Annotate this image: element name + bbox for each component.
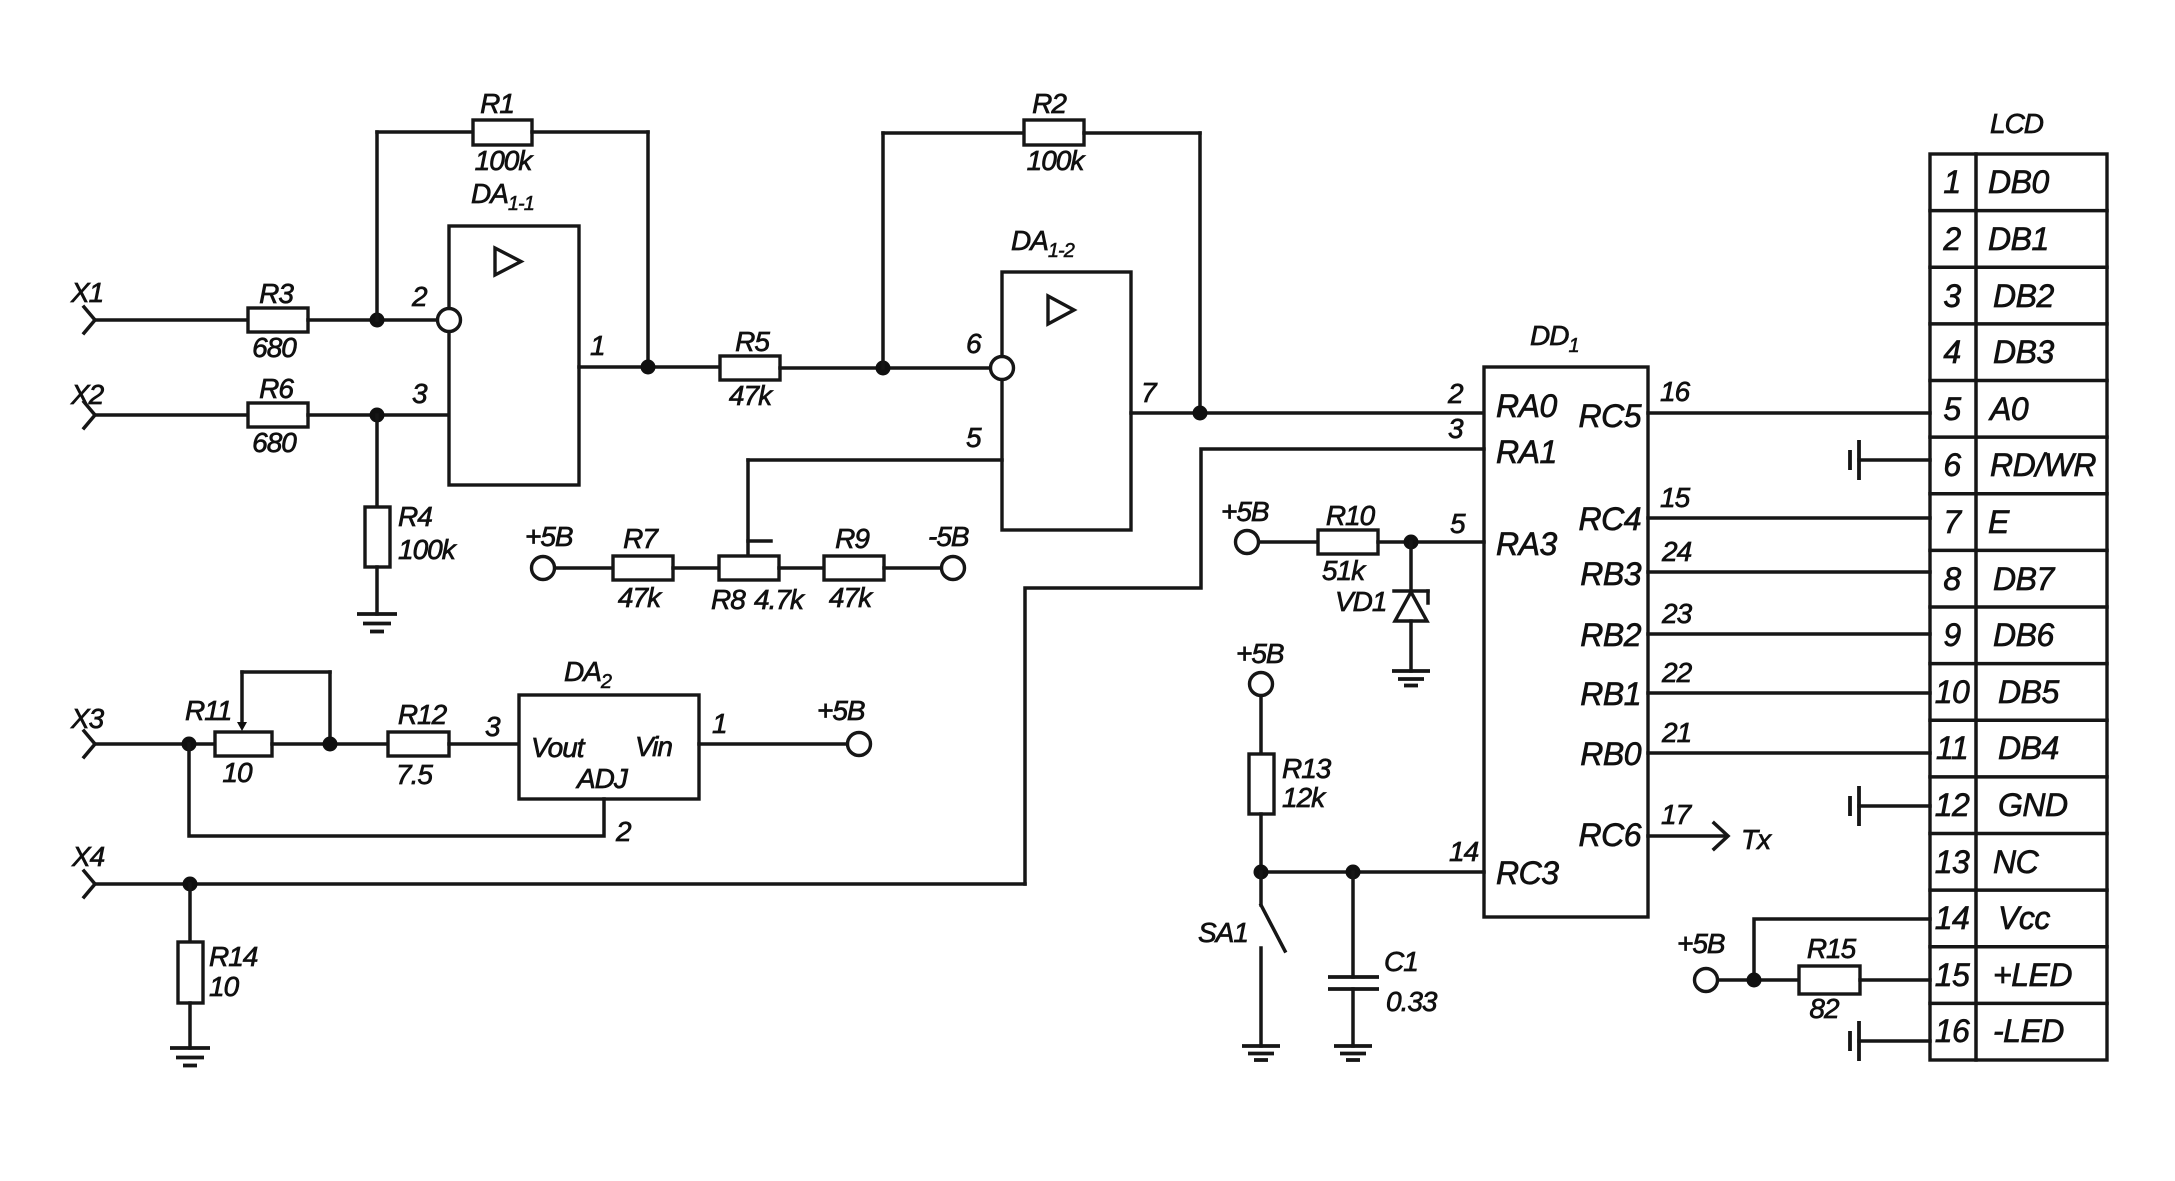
wire +5B to R15 (1718, 978, 1799, 982)
svg-text:RC4: RC4 (1578, 501, 1641, 537)
svg-text:15: 15 (1660, 482, 1691, 513)
pin 2 DB1 (1942, 221, 2048, 257)
svg-text:ADJ: ADJ (575, 763, 629, 794)
resistor R1 100k (473, 88, 534, 176)
wire R9 to -5B (884, 566, 941, 570)
svg-text:DB1: DB1 (1988, 221, 2049, 257)
svg-text:RB3: RB3 (1580, 556, 1641, 592)
regulator U DA2 (485, 656, 727, 847)
svg-text:47k: 47k (729, 380, 774, 411)
wire R2 left vertical (881, 133, 885, 368)
wire RB2 to DB6 (1648, 632, 1930, 636)
svg-text:15: 15 (1935, 957, 1970, 993)
svg-text:RC6: RC6 (1578, 817, 1641, 853)
ground at -LED pin (1850, 1021, 1930, 1061)
svg-text:8: 8 (1943, 561, 1961, 597)
wire R6 to op-amp pin 3 (308, 413, 449, 417)
wire R11 wiper with arrow (237, 672, 247, 731)
wire R11 to R12 (272, 742, 388, 746)
svg-text:DB0: DB0 (1988, 164, 2049, 200)
svg-text:24: 24 (1661, 536, 1692, 567)
pin 8 DB7 (1943, 561, 2055, 597)
wire R12 to DA2 pin 3 (449, 742, 519, 746)
svg-text:16: 16 (1660, 376, 1691, 407)
pin 12 GND (1935, 787, 2068, 823)
svg-text:3: 3 (412, 378, 428, 409)
svg-text:7.5: 7.5 (396, 759, 433, 790)
wire junction to VD1 (1409, 542, 1413, 591)
svg-text:RC5: RC5 (1578, 398, 1641, 434)
svg-text:-5B: -5B (928, 521, 969, 552)
svg-text:21: 21 (1661, 717, 1691, 748)
node X2 (70, 379, 105, 428)
pin 7 E (1943, 504, 2010, 540)
power +5B right of DA2 (817, 695, 871, 756)
wire RC3 row to DD1 (1261, 870, 1484, 874)
node junction X4/R14 (183, 877, 198, 892)
node X3 (70, 703, 105, 757)
wire +5B to R13 (1259, 696, 1263, 754)
wire R1 left vertical (375, 132, 379, 320)
svg-text:100k: 100k (1027, 145, 1087, 176)
resistor R14 10 (178, 941, 258, 1003)
svg-text:5: 5 (1943, 391, 1961, 427)
power -5B (928, 521, 969, 580)
pin 13 NC (1935, 844, 2040, 880)
svg-text:R8: R8 (711, 584, 746, 615)
resistor R4 100k (365, 501, 458, 567)
svg-text:82: 82 (1809, 993, 1840, 1024)
ground at GND pin (1850, 786, 1930, 826)
svg-text:47k: 47k (829, 582, 874, 613)
wire RB3 to DB7 (1648, 570, 1930, 574)
svg-text:R14: R14 (209, 941, 258, 972)
wire R10 to DD1 RA3 (1378, 540, 1484, 544)
wire junction to R14 (188, 884, 192, 942)
op-amp U DA1-1 (411, 178, 605, 485)
svg-text:LCD: LCD (1990, 108, 2044, 139)
node X4 (71, 841, 105, 897)
svg-text:RC3: RC3 (1496, 855, 1559, 891)
svg-text:2: 2 (1942, 221, 1961, 257)
svg-text:5: 5 (966, 422, 982, 453)
svg-text:R15: R15 (1807, 933, 1857, 964)
svg-text:10: 10 (1935, 674, 1970, 710)
wire op-amp pin7 to DD1 RA0 (1131, 411, 1484, 415)
svg-text:R5: R5 (735, 326, 770, 357)
svg-text:R13: R13 (1282, 753, 1332, 784)
wire R13 to RC3 row (1259, 814, 1263, 872)
wire op-amp pin1 output (579, 365, 720, 369)
wire DA2 pin1 to +5B (699, 742, 848, 746)
wire RA1 to X4 net (1025, 449, 1484, 884)
svg-text:Vout: Vout (531, 732, 586, 763)
node junction R13/SA1 (1254, 865, 1269, 880)
wire RC4 to E (1648, 516, 1930, 520)
svg-text:R7: R7 (623, 523, 659, 554)
svg-text:+5B: +5B (1221, 496, 1269, 527)
svg-text:+5B: +5B (1677, 928, 1725, 959)
svg-text:100k: 100k (398, 534, 458, 565)
svg-text:R12: R12 (398, 699, 448, 730)
op-amp U DA1-2 (966, 225, 1158, 530)
ground under SA1 (1242, 1046, 1280, 1060)
svg-text:R10: R10 (1326, 500, 1376, 531)
svg-text:14: 14 (1935, 900, 1970, 936)
svg-text:R11: R11 (185, 695, 231, 726)
svg-text:680: 680 (252, 332, 297, 363)
wire +5B to R10 (1259, 540, 1318, 544)
svg-text:1: 1 (590, 330, 605, 361)
wire RC6 Tx arrow (1648, 823, 1772, 855)
node junction C1 (1346, 865, 1361, 880)
svg-text:7: 7 (1943, 504, 1962, 540)
power +5B for R15 (1677, 928, 1725, 992)
wire RC5 to A0 (1648, 411, 1930, 415)
svg-text:7: 7 (1141, 377, 1158, 408)
wire R15 to +LED (1860, 978, 1930, 982)
svg-text:2: 2 (615, 816, 632, 847)
svg-text:R6: R6 (259, 373, 294, 404)
svg-text:A0: A0 (1988, 391, 2029, 427)
svg-text:2: 2 (411, 281, 428, 312)
svg-text:51k: 51k (1322, 555, 1367, 586)
capacitor C1 0.33 (1328, 872, 1438, 1046)
pin 10 DB5 (1935, 674, 2060, 710)
connector LCD table (1930, 108, 2107, 1060)
svg-text:RD/WR: RD/WR (1990, 447, 2096, 483)
wire pin5 vertical to R8 wiper (746, 460, 750, 556)
wire DA2 ADJ pin 2 return (189, 744, 604, 836)
svg-text:22: 22 (1661, 657, 1693, 688)
svg-text:9: 9 (1943, 617, 1961, 653)
node junction R3/R1 (370, 313, 385, 328)
wire R8 wiper tick (748, 539, 771, 543)
wire +5B to R7 (555, 566, 613, 570)
pin 15 +LED (1935, 957, 2073, 993)
svg-text:1: 1 (712, 708, 727, 739)
svg-text:RB1: RB1 (1580, 676, 1641, 712)
svg-text:DB7: DB7 (1993, 561, 2055, 597)
resistor R2 100k (1024, 88, 1086, 176)
wire R1 right vertical (646, 132, 650, 367)
svg-text:R9: R9 (835, 523, 869, 554)
wire X3 to R11 (95, 742, 215, 746)
svg-text:R2: R2 (1032, 88, 1067, 119)
pin 1 DB0 (1943, 164, 2049, 200)
svg-text:+5B: +5B (817, 695, 865, 726)
wire R14 to ground (188, 1003, 192, 1048)
pin 5 A0 (1943, 391, 2028, 427)
svg-text:VD1: VD1 (1335, 586, 1386, 617)
svg-text:RA0: RA0 (1496, 388, 1557, 424)
node junction Vcc/R15 (1747, 973, 1762, 988)
ground under C1 (1334, 1046, 1372, 1060)
wire RB1 to DB5 (1648, 691, 1930, 695)
svg-text:11: 11 (1936, 730, 1968, 766)
svg-text:14: 14 (1449, 836, 1479, 867)
svg-text:DB6: DB6 (1993, 617, 2054, 653)
svg-text:+5B: +5B (1236, 638, 1284, 669)
wire R4 to ground (375, 567, 379, 614)
resistor R3 680 (248, 278, 308, 363)
wire R2 top right (1084, 131, 1200, 135)
wire R1 top left (377, 130, 473, 134)
power +5B left (525, 521, 573, 580)
svg-text:100k: 100k (475, 145, 535, 176)
svg-text:DB3: DB3 (1993, 334, 2054, 370)
svg-text:X1: X1 (70, 277, 103, 308)
wire R2 top left (883, 131, 1024, 135)
node junction R5/R2 (876, 361, 891, 376)
svg-text:+5B: +5B (525, 521, 573, 552)
resistor R12 7.5 (388, 699, 449, 790)
svg-text:GND: GND (1998, 787, 2068, 823)
svg-text:Vcc: Vcc (1998, 900, 2050, 936)
svg-text:680: 680 (252, 427, 297, 458)
svg-text:RB0: RB0 (1580, 736, 1641, 772)
resistor R15 82 (1799, 933, 1860, 1024)
wire R11 loop right vertical (328, 672, 332, 744)
svg-text:3: 3 (485, 711, 501, 742)
svg-text:3: 3 (1943, 278, 1961, 314)
wire X4 row (95, 882, 1025, 886)
pin 9 DB6 (1943, 617, 2054, 653)
svg-text:23: 23 (1661, 598, 1693, 629)
svg-text:12k: 12k (1282, 782, 1327, 813)
svg-text:16: 16 (1935, 1013, 1970, 1049)
wire R3 to op-amp pin 2 (308, 318, 438, 322)
resistor R9 47k (824, 523, 884, 613)
svg-text:3: 3 (1448, 413, 1464, 444)
svg-text:Vin: Vin (635, 731, 672, 762)
svg-text:NC: NC (1993, 844, 2040, 880)
svg-text:+LED: +LED (1993, 957, 2072, 993)
svg-text:DB4: DB4 (1998, 730, 2059, 766)
resistor R5 47k (720, 326, 780, 411)
node junction R6/R4 (370, 408, 385, 423)
svg-text:47k: 47k (618, 582, 663, 613)
svg-text:RA3: RA3 (1496, 526, 1557, 562)
svg-text:RA1: RA1 (1496, 434, 1557, 470)
svg-text:17: 17 (1661, 799, 1693, 830)
potentiometer R11 10 (185, 695, 272, 788)
node junction R11/loop (323, 737, 338, 752)
svg-text:C1: C1 (1384, 946, 1418, 977)
wire R11 wiper loop top (242, 670, 330, 674)
svg-text:SA1: SA1 (1198, 917, 1248, 948)
svg-text:RB2: RB2 (1580, 617, 1641, 653)
resistor R7 47k (613, 523, 673, 613)
svg-text:10: 10 (222, 757, 253, 788)
pin 14 Vcc (1935, 900, 2051, 936)
svg-text:12: 12 (1935, 787, 1970, 823)
svg-text:-LED: -LED (1993, 1013, 2064, 1049)
node junction pin7/R2 (1193, 406, 1208, 421)
resistor R13 12k (1249, 753, 1332, 814)
pin 4 DB3 (1943, 334, 2054, 370)
node X1 (70, 277, 103, 333)
resistor R10 51k (1318, 500, 1378, 586)
wire junction to R4 (375, 415, 379, 507)
wire Vcc branch (1754, 919, 1930, 980)
ground under VD1 (1392, 671, 1430, 686)
svg-text:10: 10 (209, 971, 240, 1002)
switch SA1 (1198, 872, 1285, 1046)
wire X1 to R3 (95, 318, 248, 322)
potentiometer R8 4.7k (711, 556, 806, 615)
node junction pin1/R1 (641, 360, 656, 375)
svg-text:0.33: 0.33 (1386, 986, 1438, 1017)
svg-text:5: 5 (1450, 508, 1466, 539)
power +5B for R10 (1221, 496, 1269, 554)
svg-text:X4: X4 (71, 841, 105, 872)
pin 16 -LED (1935, 1013, 2065, 1049)
svg-text:2: 2 (1447, 378, 1464, 409)
svg-text:1: 1 (1943, 164, 1960, 200)
wire X2 to R6 (95, 413, 248, 417)
svg-text:4.7k: 4.7k (754, 584, 806, 615)
wire R8 to R9 (779, 566, 824, 570)
svg-text:E: E (1988, 504, 2010, 540)
svg-text:DB2: DB2 (1993, 278, 2054, 314)
wire R1 top right (532, 130, 648, 134)
pin 3 DB2 (1943, 278, 2054, 314)
ground under R14 (170, 1048, 210, 1066)
wire R7 to R8 (673, 566, 719, 570)
svg-text:R1: R1 (480, 88, 514, 119)
ground at RD/WR (1850, 440, 1930, 480)
microcontroller DD1 (1447, 320, 1693, 917)
svg-text:13: 13 (1935, 844, 1970, 880)
svg-text:DB5: DB5 (1998, 674, 2059, 710)
svg-text:Tx: Tx (1741, 824, 1772, 855)
pin 11 DB4 (1936, 730, 2059, 766)
svg-text:R3: R3 (259, 278, 294, 309)
node junction X3/ADJ (182, 737, 197, 752)
wire R2 right vertical (1198, 133, 1202, 413)
svg-text:6: 6 (966, 328, 982, 359)
resistor R6 680 (248, 373, 308, 458)
svg-text:R4: R4 (398, 501, 432, 532)
svg-text:4: 4 (1943, 334, 1960, 370)
wire RB0 to DB4 (1648, 751, 1930, 755)
wire op-amp pin5 horizontal (748, 458, 1002, 462)
node junction R10/VD1 (1404, 535, 1419, 550)
ground under R4 (357, 614, 397, 632)
power +5B for R13 (1236, 638, 1284, 696)
wire R5 to op-amp pin 6 (780, 366, 991, 370)
svg-text:X3: X3 (70, 703, 105, 734)
diode VD1 zener (1335, 586, 1428, 671)
pin 6 RD/WR (1943, 447, 2096, 483)
svg-text:6: 6 (1943, 447, 1961, 483)
